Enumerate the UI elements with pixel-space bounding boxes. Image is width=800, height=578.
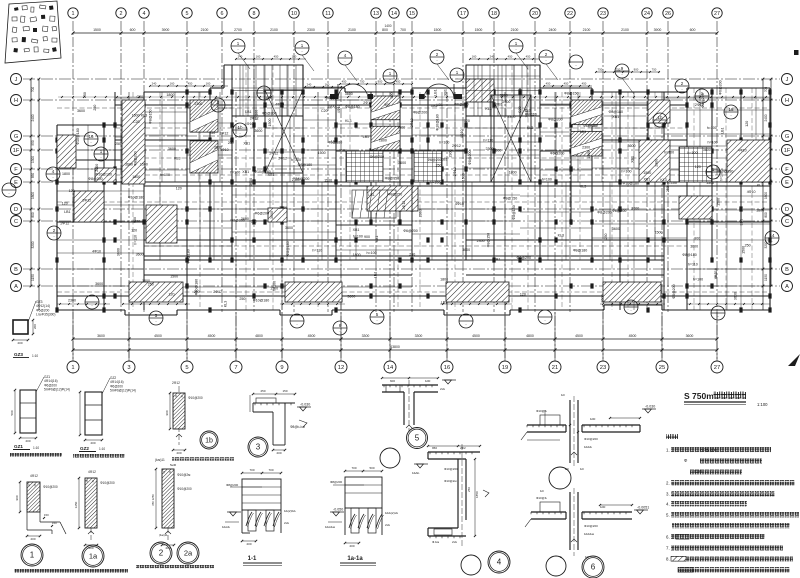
svg-text:14: 14 — [387, 365, 394, 371]
svg-text:15: 15 — [409, 11, 415, 17]
svg-text:160: 160 — [206, 82, 211, 86]
top-right tiny mark — [794, 50, 799, 55]
svg-text:1800: 1800 — [756, 209, 764, 213]
svg-text:5mΦ6@(12)Φ(14): 5mΦ6@(12)Φ(14) — [44, 388, 70, 392]
svg-text:200: 200 — [33, 324, 37, 329]
svg-text:A: A — [785, 284, 789, 290]
svg-text:25: 25 — [659, 365, 665, 371]
stair flights hatched — [190, 96, 602, 173]
elevator shafts with cross diagonals — [265, 90, 531, 182]
svg-text:1800: 1800 — [132, 175, 140, 179]
svg-text:700: 700 — [400, 28, 406, 32]
svg-text:1800: 1800 — [493, 148, 501, 152]
svg-text:14: 14 — [769, 233, 775, 238]
svg-text:1500: 1500 — [268, 119, 272, 127]
svg-text:3600: 3600 — [600, 295, 604, 303]
svg-text:250: 250 — [93, 105, 97, 111]
svg-text:250: 250 — [467, 487, 471, 492]
svg-text:h=100: h=100 — [230, 170, 240, 174]
svg-text:3600: 3600 — [612, 227, 620, 231]
svg-text:KL3: KL3 — [141, 114, 147, 118]
svg-text:8.: 8. — [666, 557, 670, 562]
svg-text:450: 450 — [188, 82, 193, 86]
bubble cross-top — [549, 467, 571, 489]
svg-text:17: 17 — [460, 11, 466, 17]
svg-text:2a: 2a — [184, 549, 193, 558]
svg-text:HPB.300: HPB.300 — [700, 448, 717, 453]
detail captions pattern strips — [10, 453, 234, 573]
section detail 1-1 — [222, 468, 296, 566]
svg-text:120: 120 — [169, 293, 175, 297]
svg-text:D: D — [785, 207, 789, 213]
svg-text:Φ8@200: Φ8@200 — [548, 118, 563, 122]
svg-text:2Φ12: 2Φ12 — [172, 381, 180, 385]
svg-text:h=110: h=110 — [325, 96, 335, 100]
svg-text:250: 250 — [194, 290, 200, 294]
svg-text:3600: 3600 — [125, 162, 133, 166]
svg-text:Φ8@180: Φ8@180 — [345, 105, 360, 109]
svg-text:800: 800 — [382, 28, 388, 32]
column detail GZ2 — [79, 376, 136, 452]
svg-text:LB1: LB1 — [434, 89, 438, 95]
svg-text:120: 120 — [695, 165, 701, 169]
svg-text:H: H — [14, 98, 18, 104]
svg-text:250: 250 — [604, 234, 608, 240]
svg-text:h=100: h=100 — [430, 181, 440, 185]
svg-text:Φ6@200: Φ6@200 — [262, 112, 277, 116]
svg-text:3300: 3300 — [415, 334, 423, 338]
svg-text:6.: 6. — [666, 535, 670, 540]
svg-text:Φ8@200: Φ8@200 — [468, 150, 472, 165]
svg-text:450: 450 — [274, 55, 279, 59]
svg-text:1500: 1500 — [717, 198, 721, 206]
svg-text:Φ8@150: Φ8@150 — [583, 124, 598, 128]
svg-text:G: G — [785, 134, 789, 140]
svg-text:1500: 1500 — [643, 171, 651, 175]
svg-text:h=100: h=100 — [693, 278, 703, 282]
concrete column blocks — [55, 89, 771, 312]
svg-text:h=100: h=100 — [542, 178, 552, 182]
svg-text:-0.0051: -0.0051 — [637, 506, 649, 510]
svg-text:KL3: KL3 — [345, 119, 351, 123]
svg-text:h=110: h=110 — [133, 235, 137, 245]
svg-text:J: J — [15, 77, 18, 83]
svg-text:Φ8@180: Φ8@180 — [682, 253, 697, 257]
svg-text:750: 750 — [652, 68, 657, 72]
svg-text:Φ8@180: Φ8@180 — [609, 110, 624, 114]
svg-text:h=100: h=100 — [439, 141, 449, 145]
svg-text:1150: 1150 — [31, 274, 35, 281]
bottom axis bubbles — [67, 361, 723, 373]
wall detail 1a — [74, 470, 115, 550]
right dimension chain — [762, 78, 773, 310]
svg-text:C30.: C30. — [694, 469, 703, 474]
svg-text:1500: 1500 — [93, 28, 101, 32]
svg-text:23: 23 — [600, 11, 606, 17]
elevator core cells — [232, 65, 540, 116]
svg-text:3900: 3900 — [162, 28, 170, 32]
svg-text:2300: 2300 — [582, 146, 590, 150]
svg-text:1:10: 1:10 — [99, 447, 105, 451]
svg-text:XB1: XB1 — [644, 178, 651, 182]
svg-text:3600: 3600 — [686, 334, 694, 338]
svg-text:Φ6@200: Φ6@200 — [550, 151, 565, 155]
svg-text:950: 950 — [31, 140, 35, 146]
svg-text:2Φ12: 2Φ12 — [220, 132, 229, 136]
svg-text:2Φ12: 2Φ12 — [269, 152, 278, 156]
svg-text:KL3: KL3 — [660, 178, 666, 182]
svg-text:600: 600 — [130, 28, 136, 32]
svg-text:18: 18 — [491, 11, 497, 17]
svg-text:23: 23 — [600, 365, 606, 371]
svg-text:-0.050: -0.050 — [333, 508, 343, 512]
svg-text:2700: 2700 — [234, 28, 242, 32]
svg-text:3600: 3600 — [285, 226, 293, 230]
svg-text:Φ8@200: Φ8@200 — [88, 177, 103, 181]
svg-text:2Φ2: 2Φ2 — [460, 446, 466, 450]
junction detail 5 — [381, 377, 456, 432]
svg-text:200: 200 — [90, 441, 95, 445]
svg-text:27: 27 — [714, 365, 720, 371]
svg-text:Φ8@Ь.Ьм: Φ8@Ь.Ьм — [290, 425, 305, 429]
svg-text:450: 450 — [582, 82, 587, 86]
svg-text:21: 21 — [552, 365, 558, 371]
svg-text:1800: 1800 — [31, 192, 35, 199]
svg-text:2Φ12: 2Φ12 — [453, 167, 457, 176]
svg-text:250: 250 — [228, 141, 234, 145]
svg-text:4Φ10: 4Φ10 — [337, 104, 341, 113]
interior dashed lines — [57, 65, 770, 310]
svg-text:10: 10 — [291, 11, 297, 17]
svg-text:C: C — [14, 219, 18, 225]
right edge arrow marker — [788, 354, 800, 366]
svg-text:1F: 1F — [784, 148, 791, 154]
svg-text:2Φ12: 2Φ12 — [402, 201, 406, 210]
svg-text:1500: 1500 — [434, 28, 442, 32]
wall detail 2 2a — [151, 458, 192, 550]
svg-text:2Φ12: 2Φ12 — [452, 144, 461, 148]
rebar tick rows on details — [29, 385, 632, 538]
svg-text:950: 950 — [432, 446, 437, 450]
svg-text:2100: 2100 — [511, 28, 519, 32]
bubble 1 — [21, 544, 43, 566]
svg-text:Φ8@200: Φ8@200 — [226, 483, 238, 487]
drawing title — [684, 391, 768, 407]
svg-text:h=110: h=110 — [714, 268, 718, 278]
svg-text:Φ8@150: Φ8@150 — [503, 197, 518, 201]
svg-text:750: 750 — [360, 80, 365, 84]
svg-text:Ф.Ьм: Ф.Ьм — [432, 540, 439, 544]
svg-text:E: E — [785, 180, 789, 186]
partition cells upper band — [57, 65, 770, 310]
svg-text:2300: 2300 — [292, 178, 300, 182]
svg-text:6: 6 — [221, 11, 224, 17]
svg-text:Φ8@200: Φ8@200 — [330, 480, 342, 484]
svg-text:Φ8@180: Φ8@180 — [573, 249, 588, 253]
svg-text:4Φ10: 4Φ10 — [275, 103, 284, 107]
svg-text:200: 200 — [17, 341, 22, 345]
svg-text:GZ1: GZ1 — [14, 444, 23, 449]
svg-text:7: 7 — [234, 365, 237, 371]
svg-text:4.: 4. — [666, 502, 670, 507]
svg-text:Ь00: Ь00 — [590, 417, 596, 421]
svg-text:Φ10@180: Φ10@180 — [96, 173, 113, 177]
svg-text:3600: 3600 — [347, 295, 355, 299]
svg-text:2Φ12: 2Φ12 — [410, 119, 414, 128]
svg-text:5мΦ: 5мΦ — [170, 463, 177, 467]
svg-text:XB1: XB1 — [375, 236, 379, 243]
svg-text:1500: 1500 — [655, 230, 663, 234]
svg-text:4500: 4500 — [208, 334, 216, 338]
svg-text:1a: 1a — [89, 552, 98, 561]
svg-text:3600: 3600 — [703, 148, 711, 152]
svg-text:KL3: KL3 — [580, 184, 586, 188]
svg-text:Ь00: Ь00 — [600, 505, 606, 509]
svg-text:H: H — [785, 98, 789, 104]
svg-text:3600: 3600 — [254, 129, 262, 133]
svg-text:5: 5 — [185, 365, 188, 371]
svg-text:Ь00: Ь00 — [425, 379, 431, 383]
svg-text:1500: 1500 — [318, 151, 326, 155]
svg-text:1.: 1. — [666, 448, 670, 453]
svg-text:3600: 3600 — [97, 334, 105, 338]
svg-text:2: 2 — [120, 11, 123, 17]
svg-text:250: 250 — [436, 164, 442, 168]
svg-text:120: 120 — [69, 189, 75, 193]
svg-text:160: 160 — [472, 55, 477, 59]
svg-text:LB1: LB1 — [437, 103, 443, 107]
svg-text:1:10: 1:10 — [32, 354, 38, 358]
svg-text:800: 800 — [31, 212, 35, 218]
svg-text:Ь0: Ь0 — [561, 393, 565, 397]
svg-text:LB1: LB1 — [721, 127, 725, 133]
svg-text:LB1: LB1 — [441, 300, 447, 304]
entry door arcs — [330, 84, 462, 99]
svg-text:150: 150 — [52, 521, 57, 525]
svg-text:Φ6@200: Φ6@200 — [370, 155, 385, 159]
svg-text:2300: 2300 — [68, 298, 76, 302]
stair grid blocks — [346, 147, 712, 182]
svg-text:Φ8@150: Φ8@150 — [148, 109, 152, 124]
svg-text:4500: 4500 — [575, 334, 583, 338]
svg-text:4500: 4500 — [629, 334, 637, 338]
svg-text:4500: 4500 — [154, 334, 162, 338]
svg-text:XB1: XB1 — [444, 89, 448, 96]
svg-text:E: E — [14, 180, 18, 186]
svg-text:h=100: h=100 — [708, 140, 718, 144]
svg-text:250: 250 — [148, 283, 154, 287]
svg-text:KL3: KL3 — [524, 108, 530, 112]
svg-text:26: 26 — [665, 11, 671, 17]
svg-text:h=100: h=100 — [667, 181, 677, 185]
svg-text:4800: 4800 — [255, 334, 263, 338]
svg-text:Φ10@180: Φ10@180 — [436, 114, 440, 131]
svg-text:3600: 3600 — [733, 292, 737, 300]
svg-text:24: 24 — [644, 11, 650, 17]
svg-text:Φ10@200: Φ10@200 — [444, 467, 458, 471]
svg-text:Φ8@180: Φ8@180 — [286, 241, 290, 256]
svg-text:h=100: h=100 — [367, 251, 377, 255]
svg-text:2400: 2400 — [549, 28, 557, 32]
right axis bubbles — [782, 74, 793, 292]
column detail GZ3 — [12, 300, 56, 358]
svg-text:120: 120 — [520, 292, 526, 296]
svg-text:5mΦ6@(12)Φ(14): 5mΦ6@(12)Φ(14) — [110, 389, 136, 393]
svg-text:900: 900 — [634, 68, 639, 72]
svg-text:Φ6@200: Φ6@200 — [255, 211, 270, 215]
svg-text:D: D — [14, 207, 18, 213]
svg-text:2Φ12: 2Φ12 — [363, 101, 372, 105]
svg-text:2300: 2300 — [279, 206, 287, 210]
svg-text:h=100: h=100 — [664, 150, 674, 154]
bubble 4 — [461, 551, 510, 575]
svg-text:KL3: KL3 — [224, 301, 228, 307]
svg-text:ЬЬЬЬм: ЬЬЬЬм — [584, 532, 594, 536]
svg-text:h=100: h=100 — [353, 234, 363, 238]
svg-text:43800: 43800 — [390, 345, 400, 349]
svg-text:2300: 2300 — [655, 159, 659, 167]
svg-text:6: 6 — [591, 563, 596, 572]
svg-text:LB1: LB1 — [64, 210, 70, 214]
top leader lines to markers — [238, 53, 634, 94]
svg-text:250: 250 — [83, 92, 87, 98]
svg-text:120: 120 — [62, 201, 68, 205]
left axis bubbles — [11, 74, 22, 292]
svg-text:2Φ12: 2Φ12 — [82, 198, 91, 202]
svg-text:1850: 1850 — [475, 491, 479, 498]
svg-text:450: 450 — [396, 80, 401, 84]
svg-text:3600: 3600 — [345, 92, 353, 96]
svg-text:200: 200 — [246, 542, 251, 546]
svg-text:Φ8@150: Φ8@150 — [388, 193, 403, 197]
svg-text:GZ2: GZ2 — [80, 446, 89, 451]
svg-text:240: 240 — [238, 55, 243, 59]
svg-text:14: 14 — [391, 11, 397, 17]
top axis bubbles — [68, 8, 722, 18]
svg-text:450: 450 — [546, 82, 551, 86]
svg-text:250: 250 — [409, 253, 415, 257]
svg-text:3600: 3600 — [168, 147, 176, 151]
svg-text:3900: 3900 — [654, 28, 662, 32]
svg-text:KL3: KL3 — [485, 107, 491, 111]
svg-text:120: 120 — [745, 121, 749, 127]
svg-text:Ь0: Ь0 — [540, 489, 544, 493]
svg-text:KL3: KL3 — [558, 233, 564, 237]
svg-text:1b: 1b — [237, 125, 243, 130]
svg-text:900: 900 — [390, 93, 394, 99]
svg-text:3300: 3300 — [362, 334, 370, 338]
svg-text:450: 450 — [342, 80, 347, 84]
svg-text:2: 2 — [159, 549, 164, 558]
svg-text:Φ10@180: Φ10@180 — [253, 299, 270, 303]
svg-text:1300: 1300 — [31, 156, 35, 163]
svg-text:4500: 4500 — [308, 334, 316, 338]
svg-text:1800: 1800 — [264, 96, 272, 100]
svg-text:3600: 3600 — [500, 94, 508, 98]
column detail GZ1 — [10, 375, 70, 450]
svg-text:2хЬ: 2хЬ — [452, 540, 457, 544]
svg-text:LB1: LB1 — [368, 193, 374, 197]
svg-text:1800: 1800 — [764, 192, 768, 199]
top dimension chain — [72, 24, 719, 35]
svg-text:1800: 1800 — [142, 279, 150, 283]
svg-text:1:10: 1:10 — [33, 446, 39, 450]
svg-text:Φ10@200: Φ10@200 — [188, 396, 203, 400]
svg-text:h=110: h=110 — [483, 139, 493, 143]
svg-text:Φ10@180: Φ10@180 — [76, 128, 80, 145]
svg-text:2400: 2400 — [764, 114, 768, 121]
svg-text:h=100: h=100 — [621, 169, 631, 173]
svg-text:4Φ10: 4Φ10 — [455, 202, 464, 206]
svg-text:h=100: h=100 — [273, 281, 277, 291]
svg-text:900: 900 — [364, 235, 370, 239]
svg-text:1400: 1400 — [384, 24, 391, 28]
svg-text:1800: 1800 — [327, 105, 335, 109]
svg-text:3600: 3600 — [214, 145, 222, 149]
svg-text:3600: 3600 — [95, 282, 103, 286]
svg-text:3600: 3600 — [690, 244, 698, 248]
svg-text:C: C — [785, 219, 789, 225]
svg-text:Ln≥Φ35(300): Ln≥Φ35(300) — [36, 313, 55, 317]
plan detail markers — [2, 39, 779, 335]
svg-text:2хЬ: 2хЬ — [385, 523, 390, 527]
svg-text:900: 900 — [378, 80, 383, 84]
svg-text:XB1: XB1 — [268, 173, 275, 177]
svg-text:250: 250 — [666, 186, 670, 192]
svg-text:3600: 3600 — [462, 248, 470, 252]
svg-text:h=100: h=100 — [291, 158, 301, 162]
svg-text:3600: 3600 — [398, 161, 406, 165]
svg-text:Φ8@200: Φ8@200 — [517, 256, 532, 260]
svg-text:4Φ10: 4Φ10 — [738, 149, 747, 153]
svg-text:20: 20 — [532, 11, 538, 17]
svg-text:Φ8@150: Φ8@150 — [512, 205, 516, 220]
svg-text:-0.030: -0.030 — [645, 405, 655, 409]
svg-text:160: 160 — [292, 55, 297, 59]
svg-text:2300: 2300 — [507, 115, 515, 119]
svg-text:22: 22 — [567, 11, 573, 17]
svg-text:3: 3 — [127, 365, 130, 371]
svg-text:h=100: h=100 — [707, 126, 717, 130]
svg-text:3600: 3600 — [270, 211, 274, 219]
svg-text:Φ10@180: Φ10@180 — [623, 182, 640, 186]
svg-text:150: 150 — [282, 389, 287, 393]
svg-text:h=100: h=100 — [254, 110, 258, 120]
svg-text:450: 450 — [508, 55, 513, 59]
svg-text:900: 900 — [384, 103, 390, 107]
svg-text:ЬЬЬ(2)хЬ: ЬЬЬ(2)хЬ — [385, 511, 398, 515]
svg-text:200: 200 — [176, 451, 181, 455]
svg-text:1a-1a: 1a-1a — [347, 556, 363, 562]
svg-text:KL3: KL3 — [527, 126, 533, 130]
bubble 1b — [200, 431, 218, 449]
svg-text:XB1: XB1 — [494, 257, 501, 261]
bubble 1a — [82, 545, 104, 567]
svg-text:240: 240 — [490, 55, 495, 59]
svg-text:S 750m: S 750m — [684, 391, 714, 401]
svg-text:5.: 5. — [666, 513, 670, 518]
svg-text:1:100: 1:100 — [757, 402, 768, 407]
svg-text:1F: 1F — [13, 148, 20, 154]
svg-text:750: 750 — [598, 68, 603, 72]
svg-text:Φ10@200: Φ10@200 — [584, 437, 598, 441]
svg-text:XB1: XB1 — [353, 228, 360, 232]
svg-text:12: 12 — [338, 365, 344, 371]
svg-text:LB1: LB1 — [245, 110, 251, 114]
svg-text:11: 11 — [325, 11, 331, 17]
svg-text:1500: 1500 — [587, 151, 591, 159]
svg-text:18: 18 — [728, 107, 734, 112]
